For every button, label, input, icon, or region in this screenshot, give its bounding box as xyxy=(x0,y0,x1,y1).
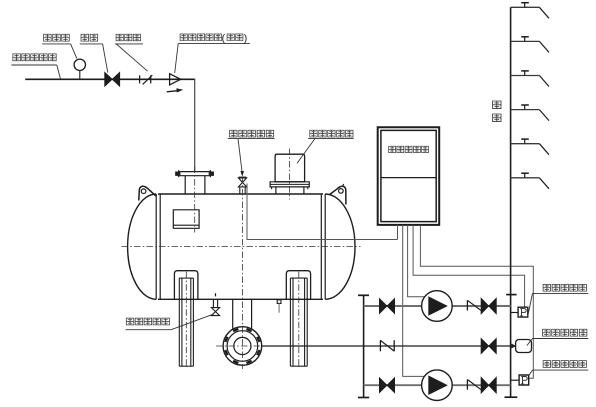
pressure sensor P1 box xyxy=(511,307,528,317)
pressure sensor P2 box (超高压保护) xyxy=(511,375,529,385)
label 压力传感器 (right) xyxy=(528,284,589,316)
valve bypass xyxy=(481,338,496,353)
label 能量储存器 xyxy=(527,329,589,345)
support leg left xyxy=(174,271,198,367)
label 压力传感器 (tank) xyxy=(228,130,275,177)
label 负压表 xyxy=(42,34,77,58)
tank shell body xyxy=(128,194,355,299)
backflow preventer (倒流防止器) xyxy=(170,74,181,85)
vacuum suppressor centerline xyxy=(289,149,291,200)
label 接市政来水 xyxy=(11,54,60,79)
pump P2 xyxy=(422,370,453,401)
drain nipple xyxy=(277,300,281,313)
wire W3 cabinet-to-pump1 xyxy=(408,225,425,297)
suction header top cap xyxy=(358,294,369,296)
label 用户 xyxy=(493,101,501,109)
user branch 6 xyxy=(511,173,549,189)
outlet centerline vertical xyxy=(241,177,243,370)
energy storage vessel (能量储存器) xyxy=(511,340,531,353)
label 超高压保护 xyxy=(529,361,589,376)
flow arrow xyxy=(167,88,183,92)
support leg right xyxy=(286,271,310,367)
tank nameplate xyxy=(173,210,199,229)
wire municipal inlet pipe xyxy=(25,78,195,80)
control cabinet (变频控制柜) xyxy=(378,127,440,225)
pipe bypass middle line xyxy=(262,345,511,347)
label 过滤器 xyxy=(115,34,148,71)
outlet centerline horizontal xyxy=(216,345,271,347)
wire sensor cable to cabinet xyxy=(247,184,398,240)
user branch 1 xyxy=(511,3,549,19)
discharge header top cap xyxy=(506,294,516,296)
inlet nozzle neck xyxy=(185,176,205,194)
leg right centerline xyxy=(298,272,300,368)
user branch 3 xyxy=(511,71,549,87)
label 变频控制柜 xyxy=(389,146,396,152)
wire W4 cabinet-to-P1 xyxy=(413,225,524,308)
suction header xyxy=(363,295,365,397)
inlet nozzle centerline xyxy=(194,167,196,233)
lifting lug right xyxy=(330,184,346,205)
svg-text:): ) xyxy=(244,32,248,44)
drain valve (清洗排污阀) xyxy=(211,293,219,315)
suction header bottom cap xyxy=(358,397,369,399)
filter F1 (过滤器) xyxy=(140,75,153,84)
wire feed drop pipe xyxy=(194,79,196,172)
wire W2 cabinet-to-pump2 xyxy=(403,225,425,377)
user branch 4 xyxy=(511,105,549,121)
pressure sensor valve (tank top) xyxy=(238,177,246,194)
pipe pump line 1 xyxy=(364,305,511,307)
check valve pump1 xyxy=(467,300,481,310)
check valve bypass xyxy=(380,340,394,351)
valve suction pump2 xyxy=(379,378,394,393)
valve discharge pump2 xyxy=(481,377,496,393)
wire W1 cabinet-to-tank-sensor xyxy=(397,225,399,240)
valve V1 (阀门) xyxy=(105,72,120,86)
valve suction pump1 xyxy=(379,299,394,314)
gauge vacuum-gauge (负压表) xyxy=(74,59,85,79)
lifting lug left xyxy=(139,186,156,200)
outlet flange front view xyxy=(223,327,262,366)
label 真空掉制器 xyxy=(297,130,354,163)
wire W5 cabinet-to-P2 xyxy=(420,225,533,378)
svg-text:(: ( xyxy=(222,32,226,44)
discharge header bottom cap xyxy=(505,396,518,398)
vacuum suppressor (真空抑制器) xyxy=(270,154,309,194)
outlet pipe xyxy=(233,299,252,329)
user branch 2 xyxy=(511,37,549,53)
valve discharge pump1 xyxy=(481,298,496,314)
check valve pump2 xyxy=(467,380,481,390)
tank centerline xyxy=(122,246,361,248)
label 清洗排污阀 xyxy=(126,314,215,330)
user branch 5 xyxy=(511,139,549,155)
leg left centerline xyxy=(185,272,187,368)
discharge header riser xyxy=(510,7,512,397)
label 阀门 xyxy=(80,34,108,72)
pipe pump line 2 xyxy=(364,384,511,386)
inlet nozzle flange xyxy=(176,170,214,177)
label 倒流防止器(可选) xyxy=(175,32,250,73)
pump P1 xyxy=(422,291,453,322)
